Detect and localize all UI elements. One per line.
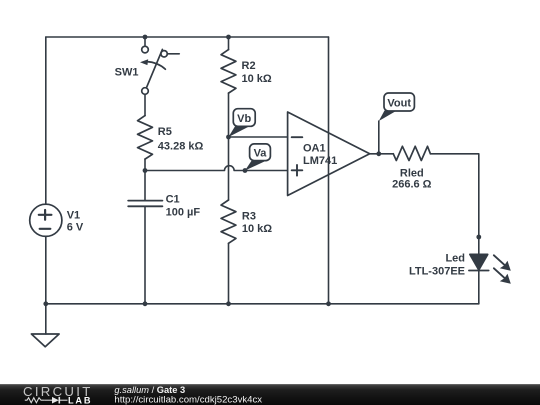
switch SW1 bottom circle — [142, 88, 149, 95]
switch SW1 arm — [146, 49, 162, 87]
wire C1 bottom lead — [144, 206, 146, 303]
svg-text:43.28 kΩ: 43.28 kΩ — [158, 141, 204, 153]
wire C1 top lead — [144, 171, 146, 201]
LED Led light arrow 2 — [494, 268, 511, 284]
op-amp OA1 minus input symbol — [292, 136, 303, 138]
resistor R5 — [138, 116, 153, 160]
wire left branch upper (top rail to V1) — [45, 37, 47, 204]
svg-text:OA1: OA1 — [303, 143, 326, 155]
svg-text:Vb: Vb — [237, 113, 251, 125]
wire R5 bottom lead — [144, 159, 146, 170]
switch SW1 throw circle — [161, 51, 167, 57]
junction dot bottom rail / R3 — [226, 301, 231, 306]
wire switch branch top lead — [144, 37, 146, 46]
op-amp OA1 plus input symbol — [292, 165, 303, 176]
svg-text:10 kΩ: 10 kΩ — [242, 223, 272, 235]
junction dot bottom rail / C1 — [143, 301, 148, 306]
wire op-amp inverting input — [229, 136, 288, 138]
svg-text:R2: R2 — [242, 60, 256, 72]
wire LED cathode to bottom rail — [478, 271, 480, 304]
svg-text:Vout: Vout — [387, 97, 411, 109]
ground — [31, 334, 59, 347]
svg-text:LM741: LM741 — [303, 155, 337, 167]
flag Va — [245, 144, 270, 171]
wire right branch vertical — [328, 37, 330, 304]
voltage source V1 minus sign — [40, 228, 51, 230]
wire node Va horizontal with hop over R2R3 column — [145, 166, 288, 171]
svg-text:266.6 Ω: 266.6 Ω — [392, 179, 432, 191]
LED Led triangle — [470, 254, 488, 270]
junction dot LED anode — [476, 235, 481, 240]
wire op-amp output — [370, 153, 394, 155]
junction dot node Vout — [376, 151, 381, 156]
voltage source V1 circle — [30, 204, 62, 236]
junction dot bottom rail / V1 — [43, 301, 48, 306]
switch SW1 throw stub — [167, 53, 179, 55]
resistor R2 — [221, 50, 236, 94]
svg-text:R5: R5 — [158, 126, 172, 138]
op-amp OA1 triangle — [288, 112, 370, 196]
switch SW1 rotation arc arrow — [147, 62, 166, 70]
junction dot node Va — [243, 168, 248, 173]
voltage source V1 plus sign — [39, 210, 52, 220]
junction dot node Vb — [226, 135, 231, 140]
footer logo diode — [45, 399, 52, 401]
wire ground stem — [45, 304, 47, 334]
wire node Vb to R3 top — [228, 137, 230, 200]
footer bar — [0, 384, 540, 405]
resistor R3 — [221, 200, 236, 243]
svg-text:LTL-307EE: LTL-307EE — [409, 265, 465, 277]
LED Led light arrow 1 — [494, 255, 511, 270]
flag Vout — [379, 93, 415, 121]
wire left branch lower (V1 to bottom rail) — [45, 236, 47, 303]
wire Vout flag stem — [378, 121, 380, 154]
wire top rail — [46, 36, 329, 38]
svg-text:Led: Led — [445, 253, 465, 265]
switch SW1 pole circle top — [142, 46, 149, 53]
LED Led cathode bar — [469, 270, 489, 272]
wire R2 top lead — [228, 37, 230, 50]
svg-text:C1: C1 — [166, 193, 180, 205]
wire bottom rail — [46, 303, 479, 305]
svg-text:R3: R3 — [242, 211, 256, 223]
junction dot top rail / switch branch — [143, 35, 148, 40]
resistor Rled — [393, 146, 430, 160]
wire Rled to LED corner — [430, 154, 478, 255]
junction dot top rail / R2 branch — [226, 35, 231, 40]
svg-text:Va: Va — [254, 148, 268, 160]
junction dot bottom rail / right branch — [326, 301, 331, 306]
svg-text:10 kΩ: 10 kΩ — [242, 73, 272, 85]
svg-text:100 µF: 100 µF — [166, 206, 201, 218]
capacitor C1 plates — [128, 201, 162, 207]
svg-text:LAB: LAB — [68, 395, 92, 405]
wire switch to R5 lead — [144, 94, 146, 115]
svg-text:6 V: 6 V — [67, 221, 84, 233]
junction dot R5 / Va wire / C1 — [143, 168, 148, 173]
flag Vb — [229, 109, 256, 137]
svg-text:SW1: SW1 — [115, 66, 139, 78]
svg-text:http://circuitlab.com/cdkj52c3: http://circuitlab.com/cdkj52c3vk4cx — [114, 394, 262, 405]
svg-text:V1: V1 — [67, 210, 80, 222]
wire R2 bottom lead to node Vb — [228, 93, 230, 137]
wire R3 bottom lead — [228, 243, 230, 303]
footer logo resistor zigzag — [25, 398, 45, 403]
